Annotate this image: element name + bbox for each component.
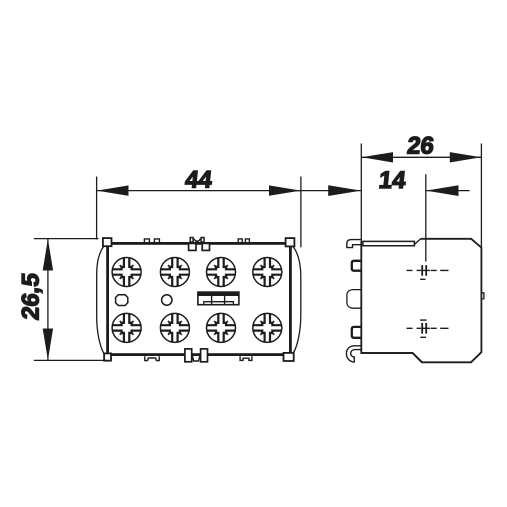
svg-text:14: 14 (378, 167, 408, 194)
screw terminal 4 (253, 258, 282, 287)
screw terminal 8 (253, 313, 282, 342)
bottom edge center tab left (185, 349, 192, 362)
dim 14 line right segment (426, 190, 470, 192)
corner tab top-right (286, 238, 295, 246)
top edge center tab right below (202, 243, 209, 250)
corner tab top-left (103, 238, 112, 246)
dim 26 arrow right (450, 152, 481, 162)
front view left side bulge (97, 246, 104, 353)
dim 44 extension line right (300, 177, 302, 248)
svg-text:26,5: 26,5 (18, 272, 45, 322)
side view top plate diagonal (415, 239, 421, 245)
top edge bump pair right (238, 239, 249, 244)
side view top plate (363, 241, 415, 245)
switch window (198, 292, 239, 305)
center mark lower (407, 320, 449, 337)
screw terminal 2 (160, 258, 189, 287)
top edge bump pair left (144, 239, 159, 244)
side view bottom step (361, 353, 422, 362)
screw centerline (425, 174, 427, 261)
side view clip upper (352, 261, 362, 271)
side view clip lower (352, 327, 362, 338)
dim 14 arrow right (outside) (426, 185, 458, 196)
dim 44 arrow right (269, 185, 301, 195)
center mark upper (407, 265, 449, 279)
dim 26 arrow left (362, 152, 393, 162)
switch window dividers (212, 296, 225, 305)
top edge center tab left below (189, 243, 196, 250)
top edge center stub left (190, 238, 193, 243)
side view right bump (481, 293, 484, 299)
screw terminal 5 (bottom row col 1) (112, 313, 141, 342)
indicator octagon (116, 295, 128, 306)
dim 14 line left segment (295, 190, 362, 192)
bottom edge hook center (193, 356, 200, 361)
switch window slider (204, 302, 234, 305)
front view right side bulge (293, 247, 301, 353)
dim 26.5 arrow bottom (43, 329, 53, 361)
screw terminal 1 (top row col 1) (112, 258, 141, 287)
side view bottom-left hook (346, 346, 361, 362)
dim 26.5 extension line bottom (34, 359, 107, 361)
bottom edge hook right (240, 356, 252, 360)
dim 44 arrow left (97, 185, 129, 195)
top edge center stub right (201, 238, 204, 243)
dim 44 extension line left (96, 177, 98, 240)
svg-text:44: 44 (184, 166, 214, 193)
dim 26.5 line (47, 239, 49, 361)
indicator circle (162, 295, 172, 305)
side view top-left hook (347, 240, 361, 248)
dim 26.5 extension line top (34, 238, 99, 240)
side view middle bulge (347, 290, 361, 309)
dim 44 line (97, 190, 301, 192)
side view body outline (361, 239, 481, 362)
svg-text:26: 26 (406, 133, 436, 160)
dim 26 line (361, 156, 481, 158)
screw terminal 7 (207, 313, 236, 342)
corner tab bottom-right (284, 353, 294, 361)
dim 14 arrow left (outside) (328, 185, 361, 196)
screw terminal 3 (207, 258, 236, 287)
bottom edge hook left (145, 356, 159, 360)
dim 26 extension line left (360, 144, 362, 243)
switch window top bar (198, 292, 239, 296)
bottom edge center tab right (201, 349, 208, 362)
front view body outline (108, 243, 291, 354)
top edge center hooks (194, 239, 200, 242)
screw terminal 6 (160, 313, 189, 342)
dim 26.5 arrow top (43, 239, 53, 271)
dim 26 extension line right (480, 144, 482, 248)
corner tab bottom-left (104, 353, 111, 360)
